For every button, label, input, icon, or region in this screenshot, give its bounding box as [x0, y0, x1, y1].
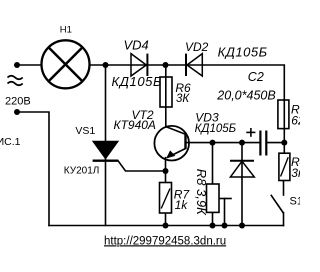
junction base/R8 node	[210, 140, 216, 146]
wire: R4 bottom to switch top contact	[283, 181, 285, 196]
svg-text:S1: S1	[290, 196, 301, 208]
svg-text:20,0*450В: 20,0*450В	[216, 88, 275, 102]
wire: node to R4 top	[283, 143, 285, 154]
wire: VD3 branch down to rail (shows through diode)	[241, 143, 243, 226]
junction R8 tap to rail	[222, 223, 228, 229]
resistor R5 (right top)	[278, 100, 289, 129]
svg-text:R8 3,9К: R8 3,9К	[194, 169, 209, 216]
svg-text:VS1: VS1	[75, 125, 95, 137]
wire: VT2 base lead to node	[186, 142, 213, 144]
svg-text:VD4: VD4	[124, 38, 149, 53]
svg-text:1k: 1k	[175, 198, 189, 212]
junction lamp/VS1/VD4	[103, 62, 109, 68]
terminal dot top	[14, 62, 20, 68]
svg-text:КД105Б: КД105Б	[218, 45, 268, 60]
resistor R8	[207, 184, 220, 212]
svg-text:КД105Б: КД105Б	[112, 74, 163, 89]
wire: left input bottom lead	[17, 112, 49, 226]
capacitor C2	[246, 128, 266, 156]
junction emitter/gate/R7 node	[163, 168, 169, 174]
wire: R7 bottom lead	[165, 213, 167, 226]
resistor R7	[160, 183, 172, 214]
svg-text:3К: 3К	[176, 93, 190, 105]
wire: switch bottom contact to rail	[283, 213, 285, 226]
resistor R4 (right lower)	[279, 153, 290, 180]
wire: bottom rail	[49, 225, 284, 227]
svg-text:http://299792458.3dn.ru: http://299792458.3dn.ru	[104, 235, 226, 247]
AC squiggle	[8, 76, 23, 86]
svg-text:H1: H1	[60, 24, 72, 35]
wire: node to C2 left plate	[213, 142, 261, 144]
wire: R8 tap stub	[219, 198, 231, 200]
svg-text:3к: 3к	[291, 166, 300, 180]
wire: thyristor branch, junction down to bottom rail	[105, 65, 107, 226]
svg-text:220В: 220В	[5, 96, 31, 108]
wire: left input top lead to lamp	[17, 64, 42, 66]
switch S1 blade	[271, 195, 283, 212]
svg-text:КУ201Л: КУ201Л	[64, 165, 100, 176]
wire: R8 bottom lead	[212, 212, 214, 225]
svg-text:КД105Б: КД105Б	[195, 123, 237, 135]
junction C2/R5/R4 node	[281, 140, 287, 146]
diode VD3	[230, 161, 254, 177]
thyristor VS1	[93, 141, 119, 160]
wire: R8 tap down to rail	[224, 199, 226, 226]
lamp H1	[42, 40, 90, 88]
wire: R6 branch down to VT2 collector (shows through R6 body)	[165, 65, 167, 127]
diode VD4	[131, 54, 147, 76]
svg-text:C2: C2	[248, 70, 264, 84]
svg-text:КТ940А: КТ940А	[114, 118, 156, 132]
wire: VT2 emitter down to node	[165, 158, 167, 183]
junction R8 to rail	[210, 223, 216, 229]
wire: lamp right through VD4 and VD2 to top-right corner, down through R5	[90, 65, 285, 143]
svg-text:РИС.1: РИС.1	[0, 136, 21, 148]
junction VD3 cathode node	[239, 140, 245, 146]
transistor VT2	[154, 126, 189, 161]
junction R7 to rail	[163, 223, 169, 229]
wire: C2 right plate to right branch	[266, 142, 284, 144]
junction VD4/R6/VD2	[163, 62, 169, 68]
wire: thyristor gate diagonal	[118, 161, 166, 171]
svg-text:620: 620	[291, 113, 300, 127]
resistor R6	[160, 77, 172, 107]
svg-text:VD2: VD2	[185, 40, 209, 54]
terminal dot bottom	[14, 109, 20, 115]
diode VD2	[186, 54, 202, 76]
junction VD3 to rail	[239, 223, 245, 229]
wire: R8 top lead	[212, 143, 214, 184]
